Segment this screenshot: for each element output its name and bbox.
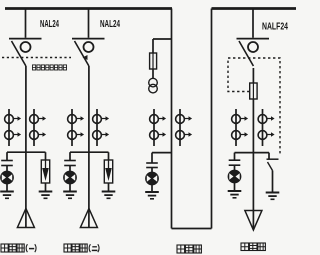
ground (earthing switch) (266, 193, 280, 200)
svg-text:NAL24: NAL24 (100, 19, 120, 30)
wire (6, 184, 8, 192)
surge arrester F1, panel 1 (41, 160, 49, 183)
wire: panel 1 accessories branch (7, 151, 46, 153)
label: two switches mechanically interlocked (两台开关机械互锁) (33, 65, 67, 70)
cable termination, panel 1 incoming cable (17, 209, 34, 228)
capacitor: metering voltage-indicator divider (146, 163, 158, 168)
surge arrester F2, panel 2 (104, 160, 112, 183)
wire: PT branch (153, 38, 172, 40)
wire (252, 68, 254, 83)
label: metering cabinet (计量柜) (177, 245, 201, 253)
ground (panel 1 arrester) (39, 192, 53, 199)
wire: metering capacitive divider stub (151, 153, 153, 163)
capacitor: outgoing voltage-indicator divider (229, 160, 241, 165)
label NALF24 (outgoing panel) (262, 22, 288, 33)
cable termination, panel 2 incoming cable (80, 209, 97, 228)
cable termination, outgoing cable (245, 211, 262, 231)
wire (234, 183, 236, 192)
label NAL24 (panel 2) (100, 19, 120, 30)
voltage transformer TV (metering PT) (149, 78, 158, 93)
wire: metering outgoing link down (172, 228, 212, 230)
indicator lamp, outgoing live-display (228, 170, 241, 183)
current transformers, panel 2 right column (93, 109, 110, 146)
wire (152, 69, 154, 79)
wire: link riser to outgoing bus (211, 9, 213, 229)
load-break switch QS2 (NAL24), panel 2 (72, 9, 105, 67)
wire: panel 1 capacitive divider stub (6, 152, 8, 160)
current transformers, panel 1 left column (5, 109, 22, 146)
current transformers, outgoing right column (258, 109, 275, 146)
wire (45, 183, 47, 192)
current transformers, outgoing left column (232, 109, 249, 146)
wire: panel 1 main feeder below switch (25, 66, 27, 228)
label NAL24 (panel 1) (40, 19, 59, 30)
earthing switch ES1 blade (268, 162, 273, 171)
indicator lamp, panel 2 live-display (64, 171, 77, 184)
busbar section 2 (outgoing bus) (212, 7, 297, 10)
wire: panel 1 arrester stub (45, 152, 47, 160)
wire: PT branch drop (152, 39, 154, 53)
wire: outgoing accessories branch (235, 152, 270, 154)
wire (151, 185, 153, 193)
mechanical interlock link (dashed) between QS1 and QS2 (2, 55, 88, 60)
wire (272, 171, 274, 193)
label: incoming cabinet 2 (进线柜(二)) (64, 244, 99, 252)
busbar section 1 (incoming/metering bus) (5, 7, 172, 10)
ground (panel 1 indicator) (0, 192, 14, 199)
ground (outgoing indicator) (228, 191, 242, 198)
wire (151, 168, 153, 173)
wire (69, 184, 71, 192)
fuse FU2 (outgoing NALF fuse) (250, 83, 257, 99)
wire: earthing switch stub (268, 153, 270, 159)
wire: outgoing capacitive divider stub (234, 153, 236, 160)
ground (panel 2 indicator) (63, 192, 77, 199)
current transformers, panel 1 right column (30, 109, 46, 146)
wire (6, 166, 8, 172)
capacitor: panel 1 voltage-indicator divider (1, 161, 13, 166)
ground (metering indicator) (145, 192, 159, 199)
earthing switch ES1 contact (267, 158, 279, 160)
wire: panel 2 accessories branch (70, 151, 109, 153)
svg-text:NALF24: NALF24 (262, 22, 288, 33)
label: incoming cabinet 1 (进线柜(一)) (1, 244, 36, 252)
current transformers, metering left column (150, 109, 167, 146)
current transformers, metering right column (176, 109, 193, 146)
indicator lamp, metering live-display (146, 172, 159, 185)
wire (69, 166, 71, 172)
wire: metering panel main riser (171, 9, 173, 229)
wire: panel 2 capacitive divider stub (69, 152, 71, 160)
capacitor: panel 2 voltage-indicator divider (64, 161, 76, 166)
wire (234, 165, 236, 170)
current transformers, panel 2 left column (68, 109, 85, 146)
fuse FU1 (PT fuse) (150, 53, 157, 69)
indicator lamp, panel 1 live-display (1, 171, 14, 184)
svg-text:NAL24: NAL24 (40, 19, 59, 30)
wire: panel 2 arrester stub (108, 152, 110, 160)
load-break switch-fuse QS3 (NALF24), outgoing panel (237, 9, 270, 67)
label: outgoing cabinet (出线柜) (241, 243, 265, 251)
wire: outgoing main feeder below fuse (252, 99, 254, 229)
wire: panel 2 main feeder below switch (88, 66, 90, 228)
load-break switch QS1 (NAL24), panel 1 (9, 9, 42, 67)
wire: metering accessories branch (152, 152, 172, 154)
ground (panel 2 arrester) (102, 192, 116, 199)
switch-fuse combination enclosure (dashed) (228, 58, 280, 156)
wire (108, 183, 110, 192)
